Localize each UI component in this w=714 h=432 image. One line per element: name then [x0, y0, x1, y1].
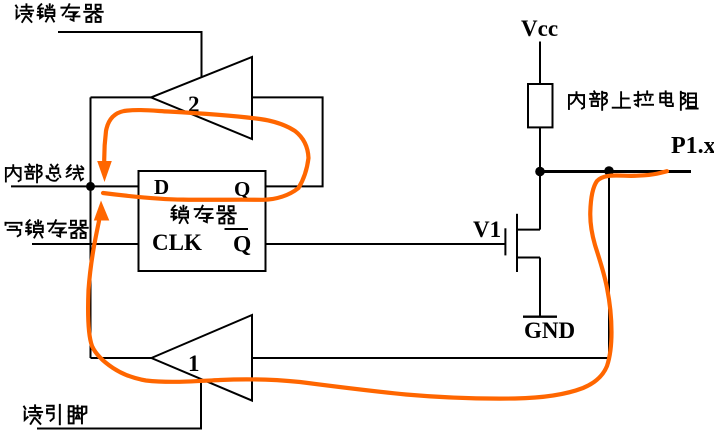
node pin junction: [604, 166, 614, 176]
wire Q to buffer2 input: [252, 97, 323, 186]
label 读引脚: [24, 405, 86, 424]
svg-text:GND: GND: [524, 318, 575, 343]
wire read-latch enable: [58, 32, 202, 77]
wire source to ground: [539, 258, 541, 317]
wire buffer2 output: [91, 96, 152, 98]
label 读锁存器: [16, 4, 103, 22]
resistor internal pull-up: [528, 84, 553, 127]
ground: [523, 317, 575, 343]
wire resistor to P1.x node: [539, 127, 541, 171]
node drain junction: [535, 167, 545, 177]
wire read-pin enable: [37, 380, 201, 428]
wire Q-bar to gate: [266, 243, 505, 245]
svg-text:1: 1: [188, 351, 200, 376]
latch: [139, 171, 266, 271]
label 写锁存器: [6, 220, 88, 238]
node bus junction: [86, 182, 95, 191]
wire buffer1 output: [91, 357, 152, 359]
wire write-latch CLK: [32, 243, 139, 245]
svg-text:D: D: [154, 175, 169, 199]
svg-text:P1.x: P1.x: [671, 133, 714, 159]
wire left vertical (bus to buffer1 output): [90, 97, 92, 358]
buffer 1: [151, 315, 252, 401]
wire drain to P1.x: [539, 171, 541, 230]
label 内部总线: [6, 164, 83, 182]
wire internal bus to D: [11, 185, 139, 187]
svg-text:CLK: CLK: [152, 230, 202, 255]
transistor V1: [473, 214, 540, 272]
wire pin feedback to buffer1 input: [252, 171, 609, 358]
svg-text:Q: Q: [233, 232, 251, 258]
power Vcc: [521, 16, 558, 84]
svg-text:Vcc: Vcc: [521, 16, 558, 41]
annotation stroke A (loop with down arrow at bus): [97, 110, 308, 200]
svg-text:Q: Q: [234, 177, 250, 201]
wire P1.x line: [539, 170, 691, 173]
buffer 2: [151, 57, 252, 139]
svg-text:V1: V1: [473, 217, 501, 242]
label 内部上拉电阻: [569, 91, 698, 109]
annotation stroke B (big loop with up arrow at bus): [88, 171, 667, 398]
